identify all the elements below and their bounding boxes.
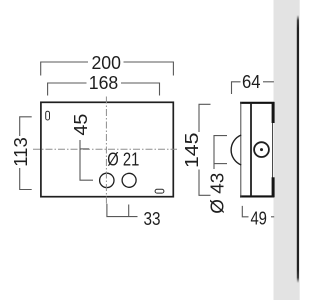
svg-text:45: 45 [71, 114, 91, 136]
dimension 45 leader [80, 140, 93, 180]
indicator circle [254, 142, 269, 157]
dimension 200 [41, 62, 174, 76]
mounting slot bottom-right [155, 189, 164, 193]
light strip right of dark line [299, 0, 300, 300]
svg-text:Ø 21: Ø 21 [107, 150, 139, 170]
svg-text:113: 113 [11, 137, 31, 167]
svg-text:49: 49 [250, 209, 267, 229]
dimension 49 [242, 206, 274, 217]
horizontal centerline [33, 148, 177, 150]
svg-text:145: 145 [182, 133, 202, 169]
dome arc (diameter 43 knob) [231, 135, 241, 165]
svg-text:64: 64 [242, 72, 261, 92]
right mounting tab top [272, 102, 275, 123]
side view top edge [240, 102, 274, 104]
svg-text:33: 33 [144, 209, 161, 229]
svg-text:Ø 43: Ø 43 [207, 173, 227, 214]
side view inner line [250, 103, 252, 197]
side view left edge (faceplate) [240, 102, 242, 197]
knockout circle left (on centerline) [100, 173, 114, 187]
side view bottom edge [240, 195, 274, 197]
knockout circle right [122, 173, 136, 187]
svg-text:168: 168 [89, 73, 119, 93]
vertical centerline [105, 97, 107, 206]
right mounting tab bottom [272, 177, 275, 197]
dimension 64 [232, 82, 274, 94]
indicator center dot [260, 148, 263, 151]
dimension 168 [48, 83, 160, 96]
mounting slot top-left [46, 111, 50, 120]
gray side panel (next-image strip) [274, 0, 301, 300]
dimension 145 [199, 104, 211, 195]
dimension 113 [20, 117, 32, 190]
front view body outline [41, 102, 173, 196]
dimension 33 [107, 204, 138, 217]
dimension diameter 43 [214, 136, 227, 169]
svg-text:200: 200 [91, 53, 121, 73]
side view right edge [272, 103, 274, 197]
